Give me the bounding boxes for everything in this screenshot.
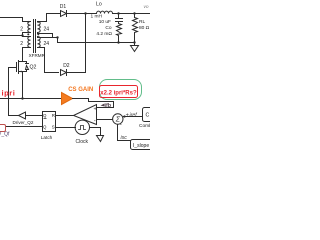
op-amp CS GAIN triangle	[62, 93, 73, 105]
wire latch R input from comparator	[56, 115, 74, 117]
node secondary tap junction	[56, 36, 58, 38]
svg-text:CS GAIN: CS GAIN	[68, 87, 93, 93]
svg-text:V_Qf: V_Qf	[0, 132, 10, 138]
comparator U1	[74, 105, 97, 125]
annotation green arc	[100, 80, 142, 100]
svg-text:2: 2	[20, 41, 23, 47]
svg-text:S: S	[52, 125, 55, 130]
label ifb with arrow	[101, 104, 105, 107]
svg-text:80 Ω: 80 Ω	[139, 25, 150, 31]
wire summer iref input	[124, 116, 143, 118]
svg-text:Q: Q	[43, 125, 47, 130]
comparator block Comb	[143, 108, 157, 122]
wire ipri sense rail	[0, 98, 62, 100]
comparator minus input wire to summer	[98, 119, 113, 121]
svg-text:24: 24	[44, 26, 50, 32]
svg-text:Lo: Lo	[96, 2, 102, 8]
annotation box x2.2 ipri*Rs?	[100, 86, 138, 98]
wire summer isc input	[118, 125, 131, 141]
svg-text:ipri: ipri	[2, 89, 16, 98]
wire Lo to output	[113, 13, 152, 15]
wire D1 cathode to Lo node	[67, 13, 97, 15]
transformer secondary winding 2 (24 turns)	[38, 37, 41, 48]
capacitor Co with ESR	[118, 14, 120, 19]
node Co top junction	[117, 12, 119, 14]
wire latch S input from clock	[56, 127, 76, 129]
svg-text:RL: RL	[139, 19, 145, 25]
node RL bottom junction	[133, 41, 135, 43]
node Co bottom junction	[117, 41, 119, 43]
svg-text:1 mH: 1 mH	[91, 14, 103, 20]
ground clock	[97, 135, 104, 137]
wire driver input from latch Q	[26, 115, 43, 117]
node source/rail junction	[21, 97, 23, 99]
svg-text:Driver_Q2: Driver_Q2	[13, 120, 34, 125]
node D1/Lo/D2 junction	[84, 12, 86, 14]
clock source	[75, 120, 89, 134]
svg-text:D2: D2	[63, 63, 70, 69]
ground output	[134, 43, 136, 46]
transformer polarity dots	[27, 21, 29, 23]
wire CS GAIN output	[73, 98, 89, 100]
svg-text:2: 2	[20, 26, 23, 32]
inductor Lo	[97, 11, 113, 13]
wire primary top to left edge	[0, 18, 31, 22]
comparator plus input wire / ifb hook	[89, 102, 114, 108]
wire secondary bottom to D2	[38, 48, 59, 73]
svg-text:10 uF: 10 uF	[99, 19, 111, 25]
svg-text:ifb: ifb	[105, 103, 112, 109]
svg-text:+: +	[94, 107, 97, 113]
net label box V_Qf	[0, 125, 6, 132]
wire latch Qbar to V_Qf label	[6, 126, 43, 128]
svg-text:I_slope: I_slope	[133, 143, 149, 149]
svg-text:R: R	[52, 113, 55, 118]
wire secondary tap to output ground rail	[58, 38, 135, 43]
transformer XFRMR core	[33, 20, 35, 53]
svg-text:4.2 mΩ: 4.2 mΩ	[96, 31, 112, 37]
wire clock to ground	[90, 128, 101, 136]
wire secondary top to D1	[38, 14, 61, 22]
svg-text:Clock: Clock	[76, 139, 89, 145]
wire Q2 gate from driver	[9, 68, 19, 116]
resistor RL	[134, 14, 136, 18]
svg-text:Co: Co	[105, 25, 111, 31]
wire primary center tap to left edge	[0, 35, 23, 37]
summer sigma circle	[113, 114, 123, 124]
svg-text:24: 24	[44, 41, 50, 47]
svg-text:iref: iref	[130, 113, 138, 119]
transformer secondary winding 1 (24 turns)	[38, 22, 41, 33]
wire secondary mid tap	[38, 34, 53, 38]
transformer primary winding 1 (2 turns)	[28, 22, 31, 33]
svg-text:Q2: Q2	[30, 64, 37, 70]
diode D2	[61, 70, 67, 76]
wire D2 cathode up to Lo input node	[67, 14, 86, 73]
wire Q2 source to sense rail	[22, 72, 24, 99]
svg-text:D1: D1	[60, 4, 67, 10]
svg-text:-: -	[120, 122, 122, 128]
wire primary bottom to Q2 drain	[23, 48, 31, 60]
svg-text:vo: vo	[144, 5, 149, 10]
driver buffer triangle	[19, 112, 26, 119]
node primary tap junction	[21, 34, 23, 36]
transformer primary winding 2 (2 turns)	[28, 37, 31, 48]
svg-text:-: -	[94, 119, 96, 125]
svg-text:Latch: Latch	[41, 135, 53, 140]
latch box	[43, 112, 56, 132]
svg-text:XFRMR: XFRMR	[29, 53, 46, 58]
svg-text:Q: Q	[43, 113, 47, 118]
diode D1	[61, 11, 67, 17]
svg-text:C: C	[146, 113, 150, 119]
block I_slope	[131, 140, 157, 150]
svg-text:Comb: Comb	[139, 123, 150, 129]
svg-text:isc: isc	[121, 135, 128, 141]
transistor Q2 NMOS	[9, 67, 17, 69]
resistor ESR 4.2 mOhm zigzag	[117, 24, 122, 43]
svg-text:+: +	[126, 113, 129, 119]
node RL top junction	[133, 12, 135, 14]
svg-text:x2.2 ipri*Rs?: x2.2 ipri*Rs?	[100, 91, 137, 97]
